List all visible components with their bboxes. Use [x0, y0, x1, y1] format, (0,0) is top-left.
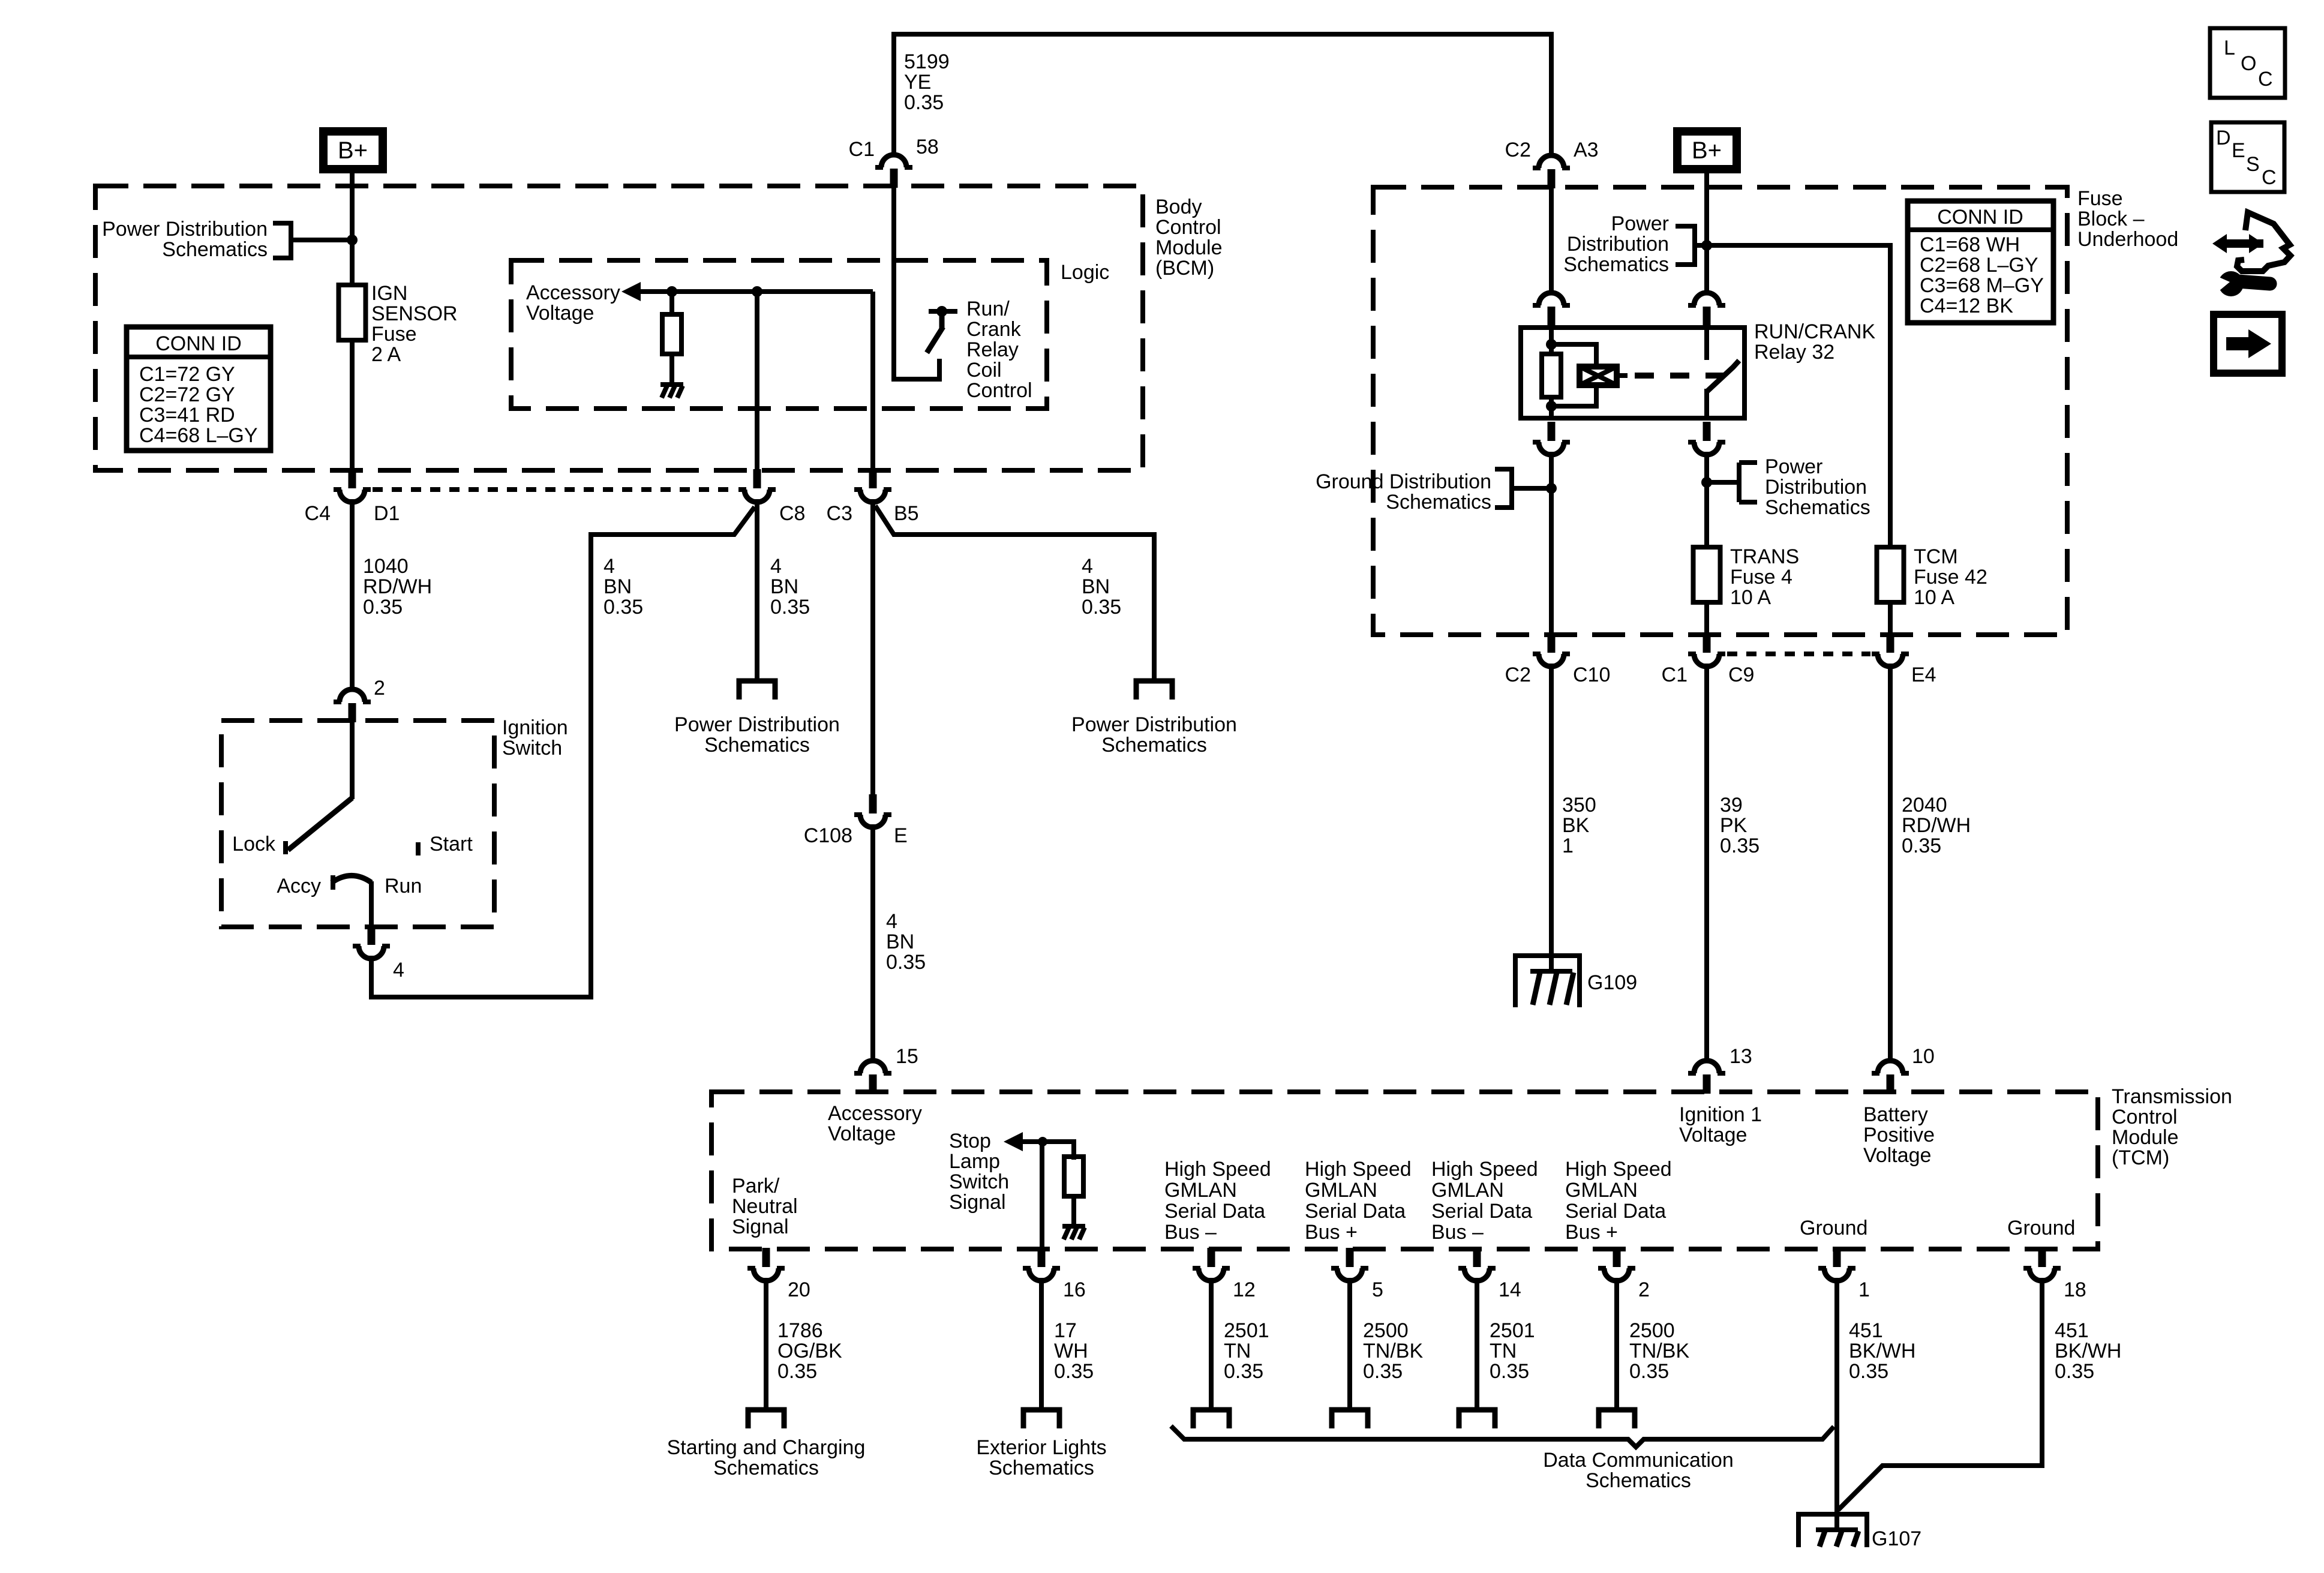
svg-text:Block –: Block –: [2077, 208, 2145, 230]
svg-text:Bus –: Bus –: [1431, 1221, 1484, 1244]
connector C1 pin 58 (BCM top): [875, 155, 912, 188]
svg-text:C9: C9: [1728, 664, 1754, 686]
wire: resistor to ground: [1071, 1196, 1076, 1225]
ground G107: [1798, 1512, 1867, 1547]
svg-text:Serial Data: Serial Data: [1305, 1200, 1406, 1223]
svg-text:0.35: 0.35: [1902, 834, 1941, 857]
svg-text:B+: B+: [1692, 137, 1722, 164]
svg-text:0.35: 0.35: [1849, 1360, 1888, 1383]
svg-text:GMLAN: GMLAN: [1565, 1179, 1638, 1202]
svg-text:C10: C10: [1573, 664, 1610, 686]
svg-text:Module: Module: [1155, 236, 1223, 259]
svg-text:BK: BK: [1562, 814, 1590, 837]
wire: coil control node bar: [929, 309, 957, 314]
svg-text:Power: Power: [1611, 212, 1669, 235]
svg-text:2: 2: [374, 677, 385, 700]
svg-text:YE: YE: [904, 71, 931, 94]
svg-text:20: 20: [788, 1278, 810, 1301]
dotted harness line C4 to C8: [373, 487, 737, 492]
svg-text:GMLAN: GMLAN: [1431, 1179, 1504, 1202]
svg-text:C108: C108: [804, 824, 852, 847]
table: CONN ID (fuse block): [1908, 201, 2053, 323]
svg-text:Starting and Charging: Starting and Charging: [667, 1436, 866, 1459]
svg-text:Control: Control: [966, 379, 1032, 402]
wire: resistor bottom: [1549, 397, 1554, 420]
junction dot relay coil top: [1546, 339, 1557, 350]
svg-text:E4: E4: [1911, 664, 1936, 686]
wire: coil loop bottom: [1551, 384, 1596, 406]
connector pin E4 (fuse block bottom): [1872, 634, 1909, 667]
svg-text:BN: BN: [886, 930, 914, 953]
contact arc Accy-Run: [332, 876, 371, 883]
svg-text:C: C: [2258, 68, 2273, 91]
wire: C3-B5 branch to power distribution (right), net 4 BN: [875, 506, 1154, 680]
svg-text:2500: 2500: [1363, 1319, 1409, 1342]
svg-text:Schematics: Schematics: [1765, 496, 1870, 519]
svg-text:17: 17: [1054, 1319, 1077, 1342]
wire: accessory voltage bus: [638, 289, 873, 294]
connector pin 10 (TCM top): [1872, 1061, 1909, 1094]
svg-text:Ground: Ground: [1800, 1217, 1867, 1239]
svg-text:10 A: 10 A: [1730, 586, 1771, 609]
svg-text:16: 16: [1063, 1278, 1086, 1301]
connector pin 1 (TCM bottom): [1818, 1248, 1855, 1281]
svg-text:2 A: 2 A: [371, 343, 401, 366]
wire: B+ feed to TCM fuse: [1707, 245, 1890, 548]
svg-text:15: 15: [896, 1045, 918, 1068]
junction dot power distribution tap: [1701, 477, 1712, 488]
svg-text:Ground: Ground: [2007, 1217, 2075, 1239]
resistor (relay coil suppression): [1542, 354, 1561, 397]
junction dot relay coil bottom: [1546, 401, 1557, 412]
svg-text:Exterior Lights: Exterior Lights: [976, 1436, 1106, 1459]
svg-text:Voltage: Voltage: [526, 302, 594, 325]
svg-text:Body: Body: [1155, 196, 1202, 218]
svg-text:C4: C4: [305, 502, 331, 525]
svg-text:Schematics: Schematics: [1101, 734, 1207, 757]
svg-text:Control: Control: [1155, 216, 1221, 239]
wire: accessory bus down to C8: [755, 292, 759, 473]
svg-text:1040: 1040: [363, 555, 409, 578]
wire: coil loop top: [1551, 344, 1596, 368]
svg-text:Underhood: Underhood: [2077, 228, 2178, 251]
svg-text:C8: C8: [779, 502, 805, 525]
svg-text:Lock: Lock: [232, 833, 276, 855]
svg-text:0.35: 0.35: [1490, 1360, 1529, 1383]
wire: B+ down to relay switch pin: [1704, 173, 1709, 292]
svg-text:(TCM): (TCM): [2112, 1146, 2169, 1169]
fork: to Exterior Lights Schematics: [1023, 1410, 1059, 1428]
node Accessory Voltage arrow: [621, 282, 641, 301]
svg-text:IGN: IGN: [371, 282, 407, 305]
wire: ignition switch common: [350, 722, 355, 799]
svg-text:C3: C3: [827, 502, 852, 525]
svg-text:L: L: [2224, 37, 2235, 59]
svg-text:C4=12 BK: C4=12 BK: [1920, 295, 2013, 317]
icon: LOC box: [2210, 28, 2285, 98]
wire: relay switch fixed contact: [1704, 326, 1709, 360]
node B+ terminal (right): [1673, 127, 1741, 173]
svg-text:2040: 2040: [1902, 794, 1947, 816]
relay coil (rect with X): [1580, 367, 1617, 385]
ground (BCM internal): [660, 382, 683, 398]
relay RUN/CRANK Relay 32 box: [1521, 328, 1744, 418]
svg-text:BN: BN: [770, 575, 798, 598]
svg-text:Control: Control: [2112, 1106, 2178, 1128]
svg-text:Ground Distribution: Ground Distribution: [1316, 470, 1491, 493]
svg-text:5199: 5199: [904, 50, 950, 73]
svg-text:C: C: [2262, 166, 2277, 189]
svg-text:0.35: 0.35: [1224, 1360, 1263, 1383]
svg-text:G109: G109: [1587, 971, 1637, 994]
wire: B+ down to IGN SENSOR fuse: [350, 173, 355, 286]
wire: pin 5, net 2500 TN/BK: [1347, 1278, 1352, 1409]
svg-text:Fuse: Fuse: [371, 323, 417, 346]
wire: tap to pull resistor: [669, 292, 674, 316]
junction dot (C8 tap): [752, 286, 762, 297]
svg-text:0.35: 0.35: [777, 1360, 817, 1383]
svg-text:B+: B+: [338, 137, 368, 164]
svg-text:Power: Power: [1765, 455, 1822, 478]
svg-text:BN: BN: [603, 575, 632, 598]
wire: stop lamp internal bus: [1020, 1142, 1074, 1160]
wire: C2-A3 to relay coil pin: [1549, 181, 1554, 292]
dotted harness line C9 to E4: [1727, 652, 1870, 656]
svg-text:5: 5: [1372, 1278, 1383, 1301]
svg-text:WH: WH: [1054, 1340, 1088, 1362]
svg-text:Crank: Crank: [966, 318, 1022, 341]
connector pin 2 (ignition switch): [334, 689, 371, 722]
fuse: TCM Fuse 42 10 A: [1877, 547, 1904, 602]
svg-text:Power Distribution: Power Distribution: [102, 218, 268, 241]
svg-text:G107: G107: [1872, 1527, 1921, 1550]
svg-text:Power Distribution: Power Distribution: [674, 713, 840, 736]
svg-text:GMLAN: GMLAN: [1164, 1179, 1237, 1202]
fuse: TRANS Fuse 4 10 A: [1694, 547, 1721, 602]
module box: Fuse Block - Underhood (dashed): [1373, 187, 2067, 635]
svg-text:A3: A3: [1574, 139, 1599, 161]
wire: relay coil ground branch: [1549, 452, 1554, 637]
svg-text:C2=72 GY: C2=72 GY: [139, 383, 235, 406]
svg-text:BK/WH: BK/WH: [2055, 1340, 2121, 1362]
wire: C9 to TCM pin 13, net 39 PK: [1704, 664, 1709, 1059]
connector pin 5 (TCM bottom): [1331, 1248, 1368, 1281]
svg-text:Accessory: Accessory: [526, 281, 620, 304]
icon: DESC box: [2211, 122, 2284, 192]
wire: TRANS fuse to C1-C9: [1704, 602, 1709, 637]
svg-text:Data Communication: Data Communication: [1543, 1449, 1733, 1472]
connector C2 pin C10 (fuse block bottom): [1533, 634, 1570, 667]
wire: coil stub to linkage: [1617, 373, 1628, 378]
node B+ terminal (left): [319, 127, 387, 173]
svg-text:CONN ID: CONN ID: [1937, 206, 2023, 229]
svg-text:E: E: [894, 824, 908, 847]
svg-text:14: 14: [1499, 1278, 1521, 1301]
svg-text:Distribution: Distribution: [1567, 233, 1669, 256]
connector pin 20 (TCM bottom): [747, 1248, 785, 1281]
svg-text:0.35: 0.35: [363, 596, 403, 619]
svg-text:39: 39: [1720, 794, 1743, 816]
svg-text:Schematics: Schematics: [713, 1457, 819, 1479]
connector: relay coil pin (bottom): [1533, 422, 1570, 455]
fork: to Power Distribution Schematics (right): [1136, 681, 1172, 700]
module box: Body Control Module (BCM), dashed: [95, 186, 1143, 470]
svg-text:2501: 2501: [1224, 1319, 1269, 1342]
svg-text:0.35: 0.35: [770, 596, 810, 619]
ground G109: [1515, 953, 1580, 1007]
svg-text:Signal: Signal: [949, 1191, 1006, 1214]
svg-text:Schematics: Schematics: [1386, 491, 1491, 514]
wire: pin 2, net 2500 TN/BK: [1614, 1278, 1619, 1409]
wire: C10 to G109, net 350 BK: [1549, 664, 1554, 955]
svg-text:Run: Run: [385, 875, 422, 897]
connector C3 pin B5 (BCM bottom): [854, 469, 891, 502]
svg-text:451: 451: [2055, 1319, 2089, 1342]
resistor (TCM stop lamp pull): [1064, 1157, 1083, 1196]
junction dot on B+ feed: [347, 235, 358, 245]
wire: relay switch to bottom pin: [1704, 389, 1709, 420]
svg-text:(BCM): (BCM): [1155, 257, 1214, 280]
wire: IGN fuse to connector C4: [350, 340, 355, 473]
brace: data communication group: [1171, 1426, 1834, 1447]
connector pin 16 (TCM bottom): [1023, 1248, 1060, 1281]
connector: relay switch pin (top): [1688, 293, 1725, 326]
svg-text:TRANS: TRANS: [1730, 545, 1799, 568]
contact tick Accy: [331, 875, 335, 890]
svg-text:PK: PK: [1720, 814, 1747, 837]
svg-text:Relay: Relay: [966, 338, 1019, 361]
svg-text:Voltage: Voltage: [1679, 1124, 1747, 1146]
svg-text:C2: C2: [1505, 664, 1531, 686]
wire: relay coil internal top: [1549, 326, 1554, 355]
svg-text:SENSOR: SENSOR: [371, 302, 458, 325]
svg-text:Fuse: Fuse: [2077, 187, 2123, 210]
wire: C8 down to power distribution, net 4 BN: [755, 499, 759, 680]
svg-text:TN: TN: [1224, 1340, 1251, 1362]
resistor (BCM internal pull-down): [662, 314, 681, 354]
svg-text:Serial Data: Serial Data: [1565, 1200, 1666, 1223]
wire: blade stub to node: [939, 313, 945, 328]
svg-text:Logic: Logic: [1061, 261, 1109, 284]
svg-text:Signal: Signal: [732, 1215, 789, 1238]
wire: C3 main down to C108: [870, 499, 875, 798]
svg-text:OG/BK: OG/BK: [777, 1340, 842, 1362]
svg-text:High Speed: High Speed: [1565, 1158, 1672, 1181]
switch blade (ignition switch, in Lock): [288, 798, 352, 850]
svg-text:Power Distribution: Power Distribution: [1071, 713, 1237, 736]
svg-text:Accessory: Accessory: [828, 1102, 922, 1125]
junction dot (resistor tap): [666, 286, 677, 297]
svg-text:Schematics: Schematics: [989, 1457, 1094, 1479]
svg-text:C1: C1: [1662, 664, 1688, 686]
connector C8 (BCM bottom): [738, 469, 776, 502]
wire: net 5199 YE top run from BCM C1-58 to fuse block C2-A3: [894, 34, 1551, 154]
wire: stop lamp node to pin 16: [1040, 1142, 1044, 1251]
svg-text:1786: 1786: [777, 1319, 823, 1342]
wire: pin 20, net 1786 OG/BK: [764, 1278, 768, 1409]
svg-text:Bus +: Bus +: [1305, 1221, 1358, 1244]
svg-text:Accy: Accy: [277, 875, 321, 897]
connector pin 4 (ignition switch bottom): [353, 926, 390, 959]
svg-text:C2=68 L–GY: C2=68 L–GY: [1920, 254, 2038, 277]
svg-text:Bus +: Bus +: [1565, 1221, 1618, 1244]
svg-text:Relay 32: Relay 32: [1754, 341, 1834, 364]
svg-text:D: D: [2216, 127, 2231, 149]
svg-text:4: 4: [770, 555, 782, 578]
connector: relay coil pin (top): [1533, 293, 1570, 326]
svg-text:Schematics: Schematics: [1586, 1469, 1691, 1492]
fork: data bus +: [1332, 1410, 1368, 1428]
svg-text:TCM: TCM: [1914, 545, 1958, 568]
svg-text:4: 4: [393, 959, 404, 981]
wire: relay switch output down: [1704, 452, 1709, 548]
svg-text:451: 451: [1849, 1319, 1883, 1342]
switch blade (relay, open): [1707, 361, 1739, 391]
svg-text:4: 4: [1082, 555, 1093, 578]
svg-text:High Speed: High Speed: [1431, 1158, 1538, 1181]
svg-text:High Speed: High Speed: [1305, 1158, 1412, 1181]
wire: pin 1, net 451 BK/WH to G107: [1834, 1278, 1839, 1514]
svg-text:Ignition 1: Ignition 1: [1679, 1103, 1762, 1126]
svg-text:1: 1: [1858, 1278, 1870, 1301]
svg-text:O: O: [2241, 52, 2256, 75]
svg-text:S: S: [2246, 153, 2260, 176]
svg-text:1: 1: [1562, 834, 1574, 857]
svg-text:Park/: Park/: [732, 1175, 780, 1197]
svg-text:4: 4: [886, 910, 897, 933]
wire: resistor to ground: [669, 354, 674, 383]
svg-text:4: 4: [603, 555, 615, 578]
module box: Ignition Switch (dashed): [221, 721, 494, 927]
svg-text:0.35: 0.35: [2055, 1360, 2094, 1383]
wire: C4 to ignition switch pin 2, net 1040 RD/WH: [350, 499, 355, 688]
connector pin 15 (TCM top): [854, 1061, 891, 1094]
ground (TCM internal): [1062, 1224, 1085, 1239]
contact tick Lock: [283, 841, 288, 854]
wire: pin 16, net 17 WH: [1039, 1278, 1044, 1409]
svg-text:0.35: 0.35: [904, 91, 944, 114]
svg-text:Lamp: Lamp: [949, 1150, 1000, 1173]
svg-text:18: 18: [2064, 1278, 2086, 1301]
fork: to Power Distribution Schematics (left): [739, 681, 775, 700]
icon: harness with wrench: [2212, 212, 2290, 296]
svg-text:350: 350: [1562, 794, 1596, 816]
svg-text:10 A: 10 A: [1914, 586, 1954, 609]
svg-text:Distribution: Distribution: [1765, 476, 1867, 499]
wire: accessory bus down to C3: [870, 292, 875, 473]
svg-text:Bus –: Bus –: [1164, 1221, 1217, 1244]
svg-text:2500: 2500: [1629, 1319, 1675, 1342]
svg-text:Battery: Battery: [1863, 1103, 1928, 1126]
svg-text:C3=41 RD: C3=41 RD: [139, 404, 235, 427]
svg-text:TN: TN: [1490, 1340, 1517, 1362]
svg-text:RD/WH: RD/WH: [1902, 814, 1971, 837]
svg-text:C1=72 GY: C1=72 GY: [139, 363, 235, 386]
connector: relay switch pin (bottom): [1688, 422, 1725, 455]
svg-text:Schematics: Schematics: [162, 238, 268, 261]
svg-text:B5: B5: [894, 502, 919, 525]
logic box (dashed) inside BCM: [511, 260, 1047, 409]
junction dot B+ feed: [1701, 240, 1712, 251]
node Stop Lamp arrow: [1004, 1132, 1023, 1151]
svg-text:C1=68 WH: C1=68 WH: [1920, 233, 2020, 256]
svg-text:0.35: 0.35: [1720, 834, 1759, 857]
svg-text:High Speed: High Speed: [1164, 1158, 1271, 1181]
connector pin 14 (TCM bottom): [1458, 1248, 1496, 1281]
junction dot coil control node: [936, 306, 947, 317]
svg-text:Voltage: Voltage: [1863, 1144, 1931, 1167]
wire: Run contact down to pin 4: [369, 881, 374, 929]
svg-text:Fuse 4: Fuse 4: [1730, 566, 1792, 589]
svg-text:TN/BK: TN/BK: [1629, 1340, 1689, 1362]
fork: data bus -: [1193, 1410, 1229, 1428]
svg-text:RUN/CRANK: RUN/CRANK: [1754, 320, 1875, 343]
junction dot ground distribution tap: [1546, 483, 1557, 494]
svg-text:RD/WH: RD/WH: [363, 575, 432, 598]
svg-text:2501: 2501: [1490, 1319, 1535, 1342]
svg-text:C4=68 L–GY: C4=68 L–GY: [139, 424, 258, 447]
wire: pin 14, net 2501 TN: [1475, 1278, 1479, 1409]
bracket: Power Distribution Schematics (left): [273, 223, 352, 258]
fork: to Starting and Charging Schematics: [748, 1410, 784, 1428]
wire: E4 to TCM pin 10, net 2040 RD/WH: [1888, 664, 1893, 1059]
connector pin 18 (TCM bottom): [2023, 1248, 2061, 1281]
connector C4 pin D1 (BCM bottom): [334, 469, 371, 502]
switch blade: run/crank relay coil control: [927, 327, 943, 353]
connector C1 pin C9 (fuse block bottom): [1688, 634, 1725, 667]
wire: pin 18, net 451 BK/WH joins pin 1: [1838, 1278, 2042, 1510]
fuse: IGN SENSOR Fuse 2 A: [339, 285, 366, 340]
svg-text:CONN ID: CONN ID: [155, 332, 242, 355]
fork: data bus +: [1599, 1410, 1635, 1428]
svg-text:0.35: 0.35: [886, 951, 926, 974]
contact tick Start: [416, 842, 421, 855]
svg-text:58: 58: [916, 136, 939, 158]
svg-text:BK/WH: BK/WH: [1849, 1340, 1915, 1362]
svg-text:Neutral: Neutral: [732, 1195, 798, 1218]
table: CONN ID (BCM): [127, 327, 271, 451]
wire: C1-58 into Run/Crank relay coil control driver: [894, 181, 939, 379]
wire: pin 12, net 2501 TN: [1209, 1278, 1214, 1409]
svg-text:Schematics: Schematics: [704, 734, 810, 757]
svg-text:0.35: 0.35: [603, 596, 643, 619]
svg-text:Start: Start: [430, 833, 473, 855]
svg-text:Switch: Switch: [502, 737, 562, 760]
module box: Transmission Control Module (TCM), dashed: [711, 1092, 2098, 1249]
svg-text:Coil: Coil: [966, 359, 1002, 382]
svg-text:0.35: 0.35: [1629, 1360, 1669, 1383]
dashed linkage coil to switch: [1635, 373, 1734, 379]
svg-text:Switch: Switch: [949, 1170, 1009, 1193]
bracket: Power Distribution Schematics (top right): [1676, 226, 1707, 265]
icon: arrow box: [2214, 314, 2282, 373]
svg-text:2: 2: [1638, 1278, 1650, 1301]
svg-text:C1: C1: [849, 138, 875, 161]
connector pin 12 (TCM bottom): [1193, 1248, 1230, 1281]
svg-text:Run/: Run/: [966, 298, 1010, 320]
svg-text:10: 10: [1912, 1045, 1935, 1068]
wire: TCM fuse to E4: [1888, 602, 1893, 637]
svg-text:13: 13: [1730, 1045, 1752, 1068]
svg-text:Ignition: Ignition: [502, 716, 568, 739]
svg-text:Positive: Positive: [1863, 1124, 1935, 1146]
svg-text:0.35: 0.35: [1363, 1360, 1403, 1383]
svg-text:0.35: 0.35: [1082, 596, 1121, 619]
svg-text:Schematics: Schematics: [1563, 253, 1669, 276]
svg-text:Voltage: Voltage: [828, 1122, 896, 1145]
connector C2 pin A3 (fuse block top): [1533, 155, 1570, 188]
svg-text:0.35: 0.35: [1054, 1360, 1094, 1383]
